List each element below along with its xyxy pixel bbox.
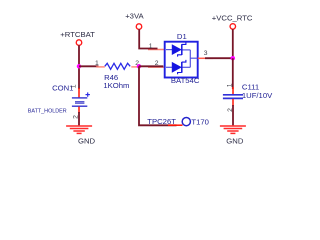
wire junction C down to C111 [232, 58, 234, 89]
svg-text:D1: D1 [177, 32, 187, 41]
diode D1a (top) [166, 49, 172, 51]
test point T170 (TPC26) [147, 117, 209, 126]
svg-text:GND: GND [226, 137, 244, 146]
battery CON1 (BATT_HOLDER) [28, 83, 90, 119]
power port +3VA [125, 11, 144, 29]
wire D1 pin 3 to junction C [198, 57, 233, 59]
svg-text:BATT_HOLDER: BATT_HOLDER [28, 108, 67, 114]
svg-text:1KOhm: 1KOhm [103, 81, 129, 90]
svg-text:1: 1 [226, 83, 233, 87]
svg-text:1: 1 [95, 60, 99, 67]
svg-text:T170: T170 [191, 117, 209, 126]
svg-text:BAT54C: BAT54C [171, 76, 200, 85]
diode D1b (bottom) [166, 66, 172, 68]
svg-text:3: 3 [204, 50, 208, 57]
svg-text:GND: GND [78, 137, 96, 146]
wire junction B down to test point [139, 66, 177, 125]
junction A (left) [77, 64, 82, 69]
wire junction down to battery [78, 66, 80, 89]
svg-text:1UF/10V: 1UF/10V [242, 91, 273, 100]
dual schottky diode D1 BAT54C [149, 32, 208, 85]
wire junction B to D1 pin 2 [139, 65, 165, 68]
wire battery to GND (left) [78, 112, 80, 125]
svg-text:+3VA: +3VA [125, 11, 144, 20]
wire +VCC_RTC down to junction C [232, 29, 234, 58]
power port +RTCBAT [60, 30, 95, 46]
svg-text:1: 1 [71, 84, 78, 88]
wire C111 to GND (right) [232, 105, 234, 125]
capacitor C111 [223, 82, 273, 112]
svg-text:1: 1 [149, 43, 153, 50]
junction B (mid, under R46 pin2) [137, 64, 142, 69]
svg-text:+VCC_RTC: +VCC_RTC [212, 13, 253, 22]
wire +3VA to D1 pin 1 [139, 29, 164, 49]
svg-text:+RTCBAT: +RTCBAT [60, 30, 95, 39]
svg-text:TPC26T: TPC26T [147, 117, 176, 126]
ground (left) [66, 126, 95, 146]
junction C (right) [231, 56, 236, 61]
svg-text:2: 2 [155, 60, 159, 67]
internal cathode bus [189, 50, 191, 67]
power port +VCC_RTC [212, 13, 253, 29]
svg-text:C111: C111 [242, 82, 259, 91]
wire +RTCBAT circle to junction [78, 45, 80, 66]
ground (right) [220, 126, 246, 146]
resistor R46 [95, 60, 139, 90]
wire junction to R46 pin 1 [79, 65, 99, 67]
